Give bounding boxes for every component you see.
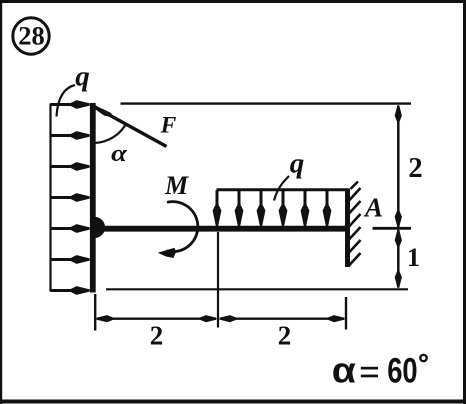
angle alpha arc bbox=[94, 123, 127, 167]
svg-text:M: M bbox=[164, 171, 189, 200]
bottom extension line bbox=[106, 288, 408, 290]
dimension 2 (bottom right) bbox=[220, 315, 345, 350]
svg-text:F: F bbox=[160, 113, 177, 139]
equation alpha = 60 degrees bbox=[332, 350, 427, 391]
svg-text:60: 60 bbox=[387, 350, 417, 390]
label q (beam load) bbox=[274, 148, 304, 201]
dimension 1 (vertical right) bbox=[395, 230, 420, 288]
top extension line bbox=[121, 102, 412, 104]
column (vertical bar) bbox=[90, 103, 96, 293]
svg-text:q: q bbox=[290, 148, 305, 180]
left tick (bottom dimension) bbox=[94, 294, 96, 331]
svg-text:1: 1 bbox=[407, 242, 420, 272]
problem number 28 badge bbox=[13, 18, 49, 54]
force F bbox=[93, 105, 177, 147]
svg-text:2: 2 bbox=[408, 153, 422, 184]
distributed load arrows (6 vertical) bbox=[213, 190, 332, 226]
distributed load q on beam: top line bbox=[217, 188, 349, 191]
svg-text:2: 2 bbox=[150, 321, 164, 351]
svg-text:q: q bbox=[75, 61, 90, 93]
pin joint (filled circle) bbox=[95, 217, 106, 238]
right tick (bottom dimension) bbox=[345, 297, 347, 330]
label q (left load) bbox=[57, 61, 90, 117]
svg-text:2: 2 bbox=[278, 321, 292, 351]
moment M bbox=[158, 171, 198, 258]
dimension 2 (bottom left) bbox=[97, 315, 217, 350]
svg-text:α: α bbox=[111, 139, 127, 167]
beam (horizontal) bbox=[95, 226, 347, 232]
distributed load q on column (left edge line) bbox=[49, 104, 51, 292]
svg-text:A: A bbox=[363, 193, 383, 223]
svg-text:28: 28 bbox=[18, 21, 45, 51]
fixed support hatching bbox=[349, 182, 361, 266]
fixed support A: wall line bbox=[345, 189, 350, 268]
svg-text:α: α bbox=[332, 351, 356, 391]
distributed load arrows (7 horizontal) bbox=[51, 100, 90, 295]
middle extension line bbox=[217, 232, 219, 328]
dimension 2 (vertical right) bbox=[395, 105, 423, 227]
tick at A level bbox=[373, 227, 412, 230]
